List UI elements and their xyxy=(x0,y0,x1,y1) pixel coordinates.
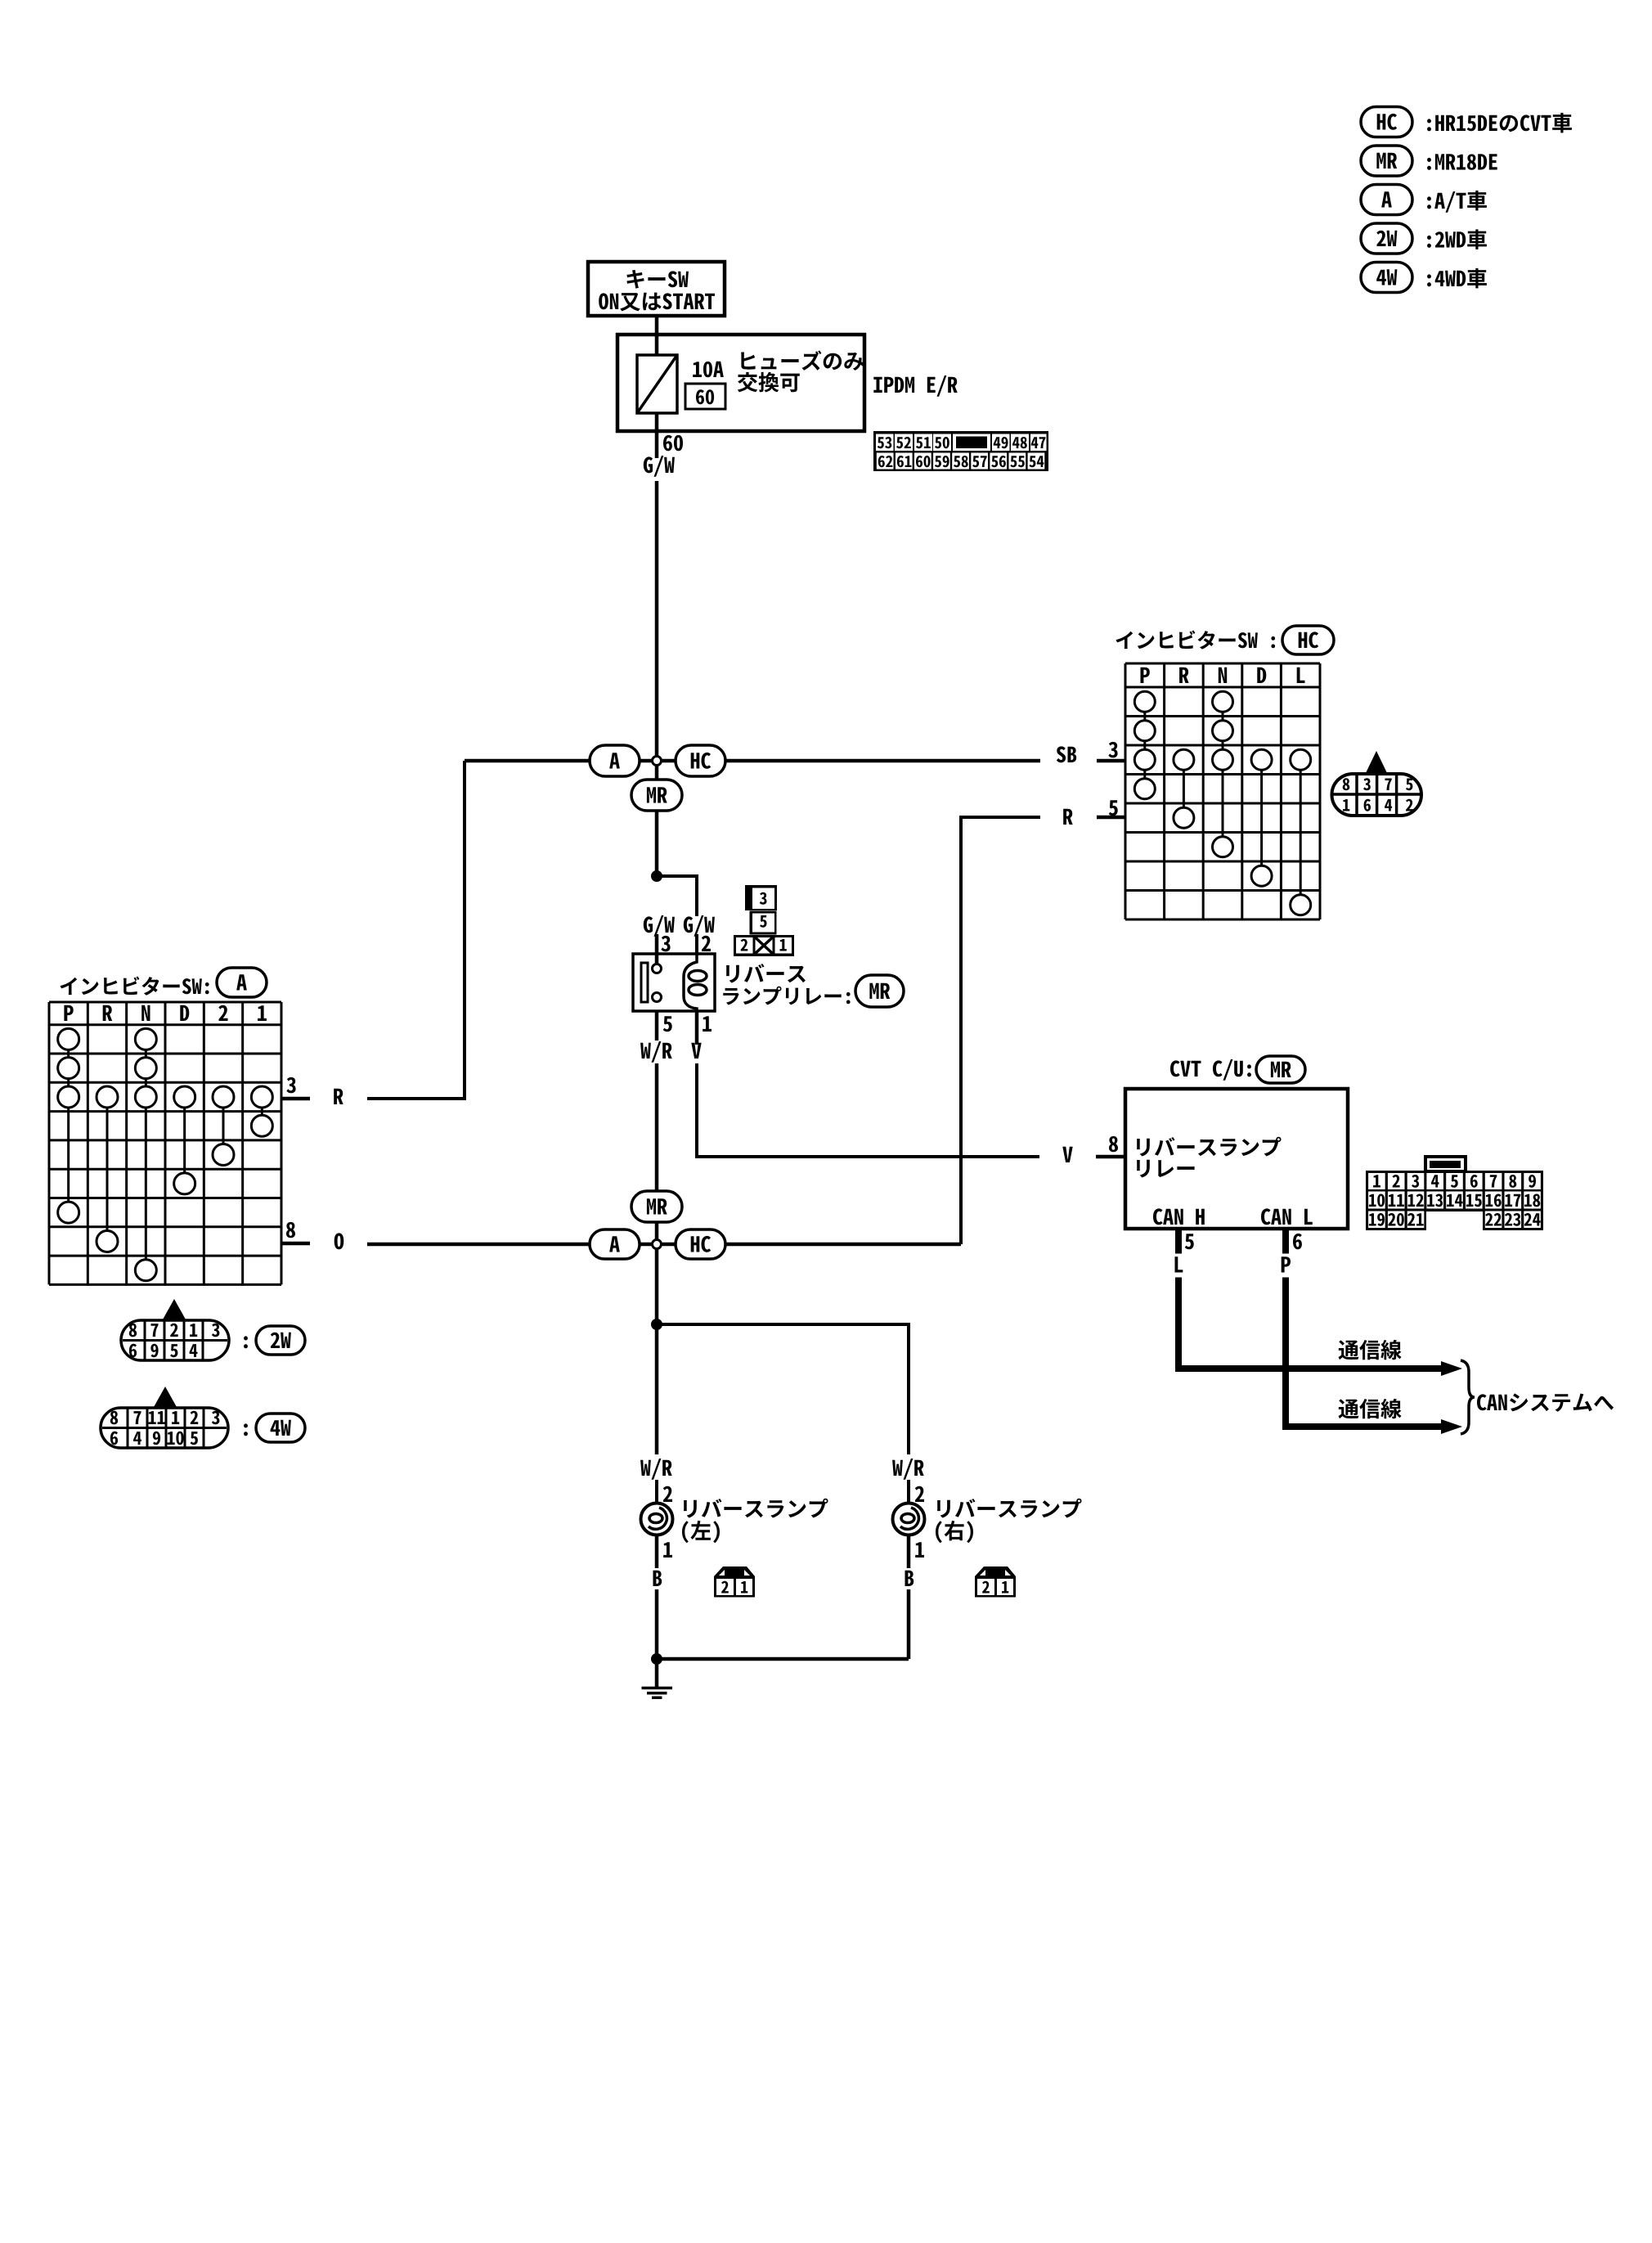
wire color label O left xyxy=(334,1233,344,1249)
CVT C/U connector pin grid 1-24 xyxy=(1366,1171,1543,1211)
node branch dot to reverse lamp relay xyxy=(651,870,662,882)
inhibitor HC contact links xyxy=(1143,702,1146,789)
relay coil xyxy=(684,954,697,1011)
wire color label W/R left lamp xyxy=(640,1459,672,1480)
legend symbol HC oval xyxy=(1361,107,1412,137)
wire CAN L pin 6 P xyxy=(1282,1229,1289,1254)
wire junction2 horizontals xyxy=(367,1243,590,1247)
oval A at junction1 xyxy=(590,745,640,776)
wire color label R right xyxy=(1063,809,1073,825)
pin label 8 at A table xyxy=(286,1222,295,1238)
wire キーSW to IPDM fuse xyxy=(655,316,659,355)
brace to CAN system xyxy=(1461,1360,1475,1434)
ground symbol xyxy=(655,1659,659,1687)
IPDM E/R enclosure box xyxy=(617,335,864,431)
wire color label SB xyxy=(1057,746,1076,762)
relay connector cavity diagram xyxy=(745,885,777,910)
legend symbol 4W oval xyxy=(1361,263,1412,293)
CVT connector latch xyxy=(1425,1157,1466,1171)
wire color label V at CVT xyxy=(1062,1147,1072,1162)
fuse rating label 10A xyxy=(693,362,724,378)
wire down to left reverse lamp xyxy=(655,1324,659,1454)
wire color label G/W xyxy=(644,456,675,477)
label CANシステムへ xyxy=(1477,1393,1614,1411)
label : 2W xyxy=(244,1336,248,1348)
inhibitor A contact links xyxy=(67,1039,70,1097)
inhibitor HC connector triangle marker xyxy=(1365,751,1388,775)
relay contact pin circles xyxy=(653,964,662,973)
inhibitor HC contact circles xyxy=(1134,691,1155,712)
IPDM connector blocked cavity xyxy=(956,437,987,449)
wire color label B left xyxy=(653,1571,662,1586)
pin label 5 at HC table xyxy=(1109,800,1118,816)
wire color label W/R below relay xyxy=(640,1041,672,1063)
IPDM E/R connector pin grid xyxy=(873,431,1048,471)
legend symbol A oval xyxy=(1361,185,1412,215)
wire stub SB to HC table pin 3 xyxy=(1097,759,1126,763)
pin label 1 right lamp xyxy=(915,1542,924,1558)
wire stub V to CVT pin 8 xyxy=(1096,1155,1125,1159)
node lamp branch dot xyxy=(651,1319,662,1330)
wire relay pin5 W/R down to junction2 xyxy=(655,1011,659,1041)
inhibitor SW A grid xyxy=(48,1002,51,1284)
label リバースランプ(左) xyxy=(684,1499,828,1518)
wire CAN H to CAN system xyxy=(1178,1278,1443,1369)
wire stub pin3 R xyxy=(281,1097,310,1101)
pin label 2 left lamp xyxy=(663,1486,672,1502)
wire relay pin1 V to CVT C/U pin8 xyxy=(695,1011,699,1045)
fuse F60 10A symbol xyxy=(637,355,677,413)
wire color label W/R right lamp xyxy=(892,1459,924,1480)
inhibitor HC connector pinout xyxy=(1332,774,1422,816)
wire junction2 up to inhibitor HC pin 5 R xyxy=(961,817,1040,1244)
wire junction1 right branch to inhibitor SW HC xyxy=(640,759,676,763)
wire stub R to HC table pin 5 xyxy=(1097,816,1126,820)
2W connector triangle marker xyxy=(163,1299,186,1319)
oval MR relay xyxy=(855,975,904,1007)
pin label 3 at HC table xyxy=(1108,742,1117,757)
wire color label G/W right xyxy=(684,915,715,937)
node junction2 open circle xyxy=(653,1240,662,1249)
wire MR oval down to relay branch dot xyxy=(655,811,659,876)
wire color label R left xyxy=(334,1089,343,1104)
node ground junction dot xyxy=(651,1653,662,1665)
pin label 8 CVT xyxy=(1109,1136,1118,1152)
inhibitor HC column headers P R N D L xyxy=(1141,668,1150,683)
pin label 3 relay xyxy=(661,936,670,951)
wire right lamp down xyxy=(907,1535,911,1568)
wire color label G/W left xyxy=(644,915,675,937)
pin label 5 relay xyxy=(663,1016,672,1032)
CVT C/U box xyxy=(1125,1089,1348,1229)
pin label 60 xyxy=(663,435,683,451)
label CVT C/U: xyxy=(1170,1059,1251,1081)
wire fuse pin 60 G/W down to junction A/HC/MR xyxy=(655,413,659,458)
legend text :MR18DE xyxy=(1427,154,1497,170)
wire to relay contact pin 3 xyxy=(655,934,659,964)
legend text :2WD車 xyxy=(1427,229,1487,249)
4W connector pinout xyxy=(101,1408,228,1448)
label インヒビターSW : HC xyxy=(1116,631,1276,650)
oval HC title xyxy=(1282,626,1334,654)
label 通信線 upper xyxy=(1339,1340,1402,1360)
wire color label B right xyxy=(905,1571,914,1586)
wire stub pin8 O xyxy=(281,1242,310,1246)
label ヒューズのみ交換可 xyxy=(741,351,864,371)
pin label 1 left lamp xyxy=(663,1542,672,1558)
2W connector pinout xyxy=(121,1320,229,1360)
oval A title xyxy=(217,968,267,997)
pin label 2 right lamp xyxy=(915,1486,924,1502)
node junction1 open circle xyxy=(653,757,662,766)
legend text :4WD車 xyxy=(1427,268,1487,289)
oval A at junction2 xyxy=(590,1229,640,1259)
pin label 1 relay xyxy=(703,1016,712,1032)
legend text :A/T車 xyxy=(1427,191,1487,213)
legend symbol MR oval xyxy=(1361,146,1412,176)
wire branch to right reverse lamp xyxy=(657,1324,909,1454)
oval MR above junction2 xyxy=(631,1191,682,1222)
legend symbol 2W oval xyxy=(1361,223,1412,254)
label CAN L xyxy=(1261,1208,1313,1225)
wire color label V below relay xyxy=(691,1043,701,1059)
label インヒビターSW: A xyxy=(61,977,209,996)
wire ground bus xyxy=(657,1657,909,1661)
pin label 3 at A table xyxy=(286,1077,295,1093)
wire left lamp to ground xyxy=(655,1535,659,1568)
relay リバースランプリレー box xyxy=(633,954,715,1011)
wire junction1 to MR oval xyxy=(655,764,659,780)
relay contact bar xyxy=(641,963,648,1002)
wire junction1 left branch to inhibitor SW A xyxy=(465,759,590,763)
inhibitor SW HC grid xyxy=(1125,663,1127,919)
label リバースランプ(右) xyxy=(937,1499,1082,1518)
oval HC at junction1 xyxy=(676,745,725,776)
label IPDM E/R xyxy=(873,375,957,397)
power source box キーSW ON又はSTART xyxy=(588,262,725,316)
lamp connector right 2|1 xyxy=(975,1567,1016,1576)
CVT C/U internal label リバースランプリレー xyxy=(1137,1137,1282,1157)
pin label 2 relay xyxy=(702,936,711,951)
label : 4W xyxy=(244,1423,248,1436)
oval MR CVT xyxy=(1256,1056,1305,1083)
wire CAN H pin 5 L xyxy=(1175,1229,1182,1254)
inhibitor A column headers P R N D 2 1 xyxy=(64,1005,73,1021)
fuse number box 60 xyxy=(685,384,725,409)
label CAN H xyxy=(1153,1208,1205,1225)
4W connector triangle marker xyxy=(154,1387,177,1407)
reverse lamp right bulb xyxy=(893,1504,925,1535)
relay label リバース ランプリレー: xyxy=(726,964,806,982)
oval HC at junction2 xyxy=(676,1229,725,1259)
wire junction1 down-left to inhibitor SW A pin 3 R xyxy=(367,761,465,1099)
lamp connector left 2|1 xyxy=(714,1567,755,1576)
legend text :HR15DEのCVT車 xyxy=(1427,113,1572,133)
inhibitor A contact circles xyxy=(58,1028,79,1050)
oval MR below junction1 xyxy=(631,780,682,811)
reverse lamp left bulb xyxy=(641,1504,673,1535)
wire CAN L to CAN system xyxy=(1286,1278,1443,1427)
wire branch to relay coil pin 2 xyxy=(657,876,697,916)
label 通信線 lower xyxy=(1339,1399,1402,1418)
wire junction2 down to lamp branch dot xyxy=(655,1248,659,1324)
